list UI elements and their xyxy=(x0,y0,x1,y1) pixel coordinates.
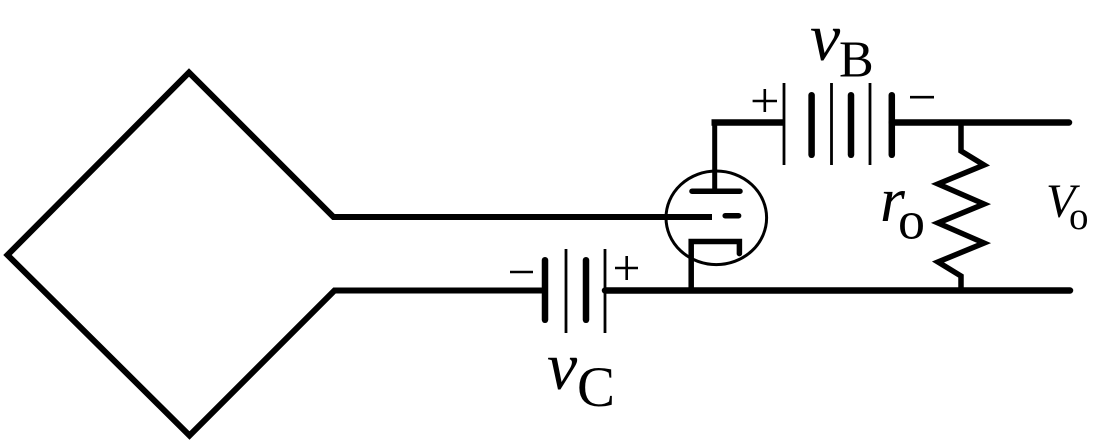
svg-text:o: o xyxy=(898,191,925,251)
svg-text:C: C xyxy=(577,356,615,419)
svg-text:v: v xyxy=(810,0,841,75)
svg-text:o: o xyxy=(1069,195,1089,238)
svg-text:v: v xyxy=(547,328,578,404)
svg-text:B: B xyxy=(839,32,874,89)
